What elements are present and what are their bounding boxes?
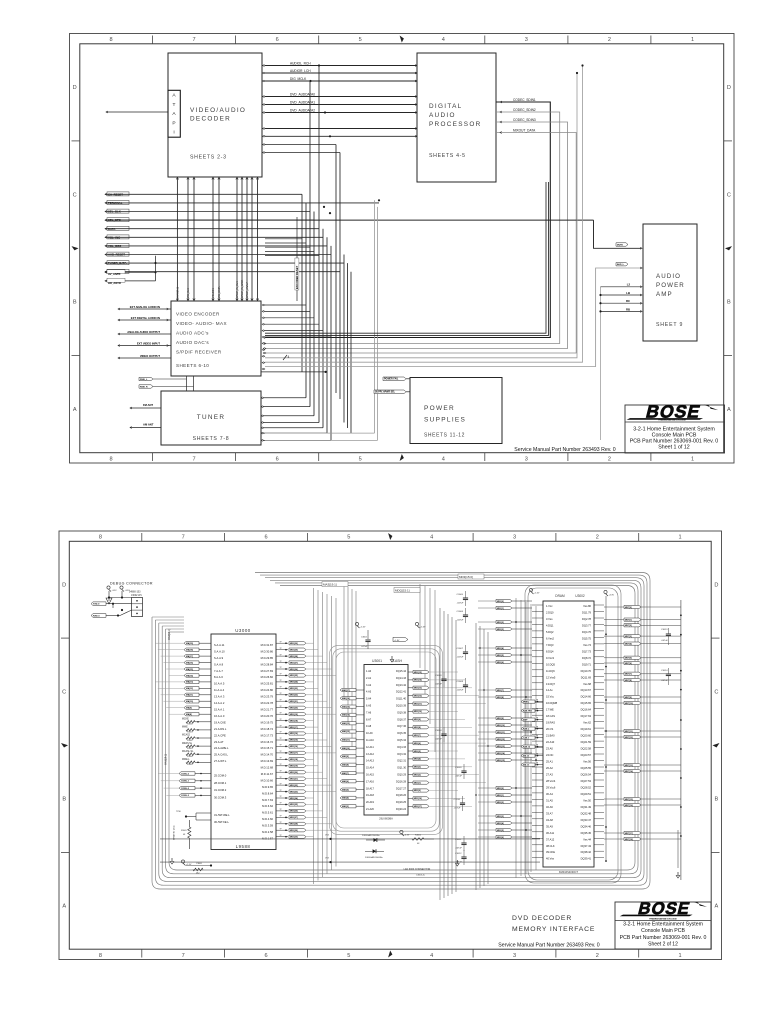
svg-text:MD3[11]: MD3[11]	[414, 703, 422, 705]
svg-text:C3003: C3003	[435, 675, 442, 677]
title block sheet 2 with BOSE logo	[615, 899, 711, 949]
svg-text:TUNER: TUNER	[197, 414, 226, 421]
U3001 pin text columns	[366, 670, 407, 811]
svg-text:DQ27.53: DQ27.53	[581, 779, 592, 783]
svg-text:MD3[21]: MD3[21]	[290, 778, 298, 780]
svg-text:MA3[19:1]: MA3[19:1]	[323, 583, 337, 587]
svg-text:2: 2	[596, 535, 599, 541]
U3002 right pin stubs and rail	[594, 600, 682, 880]
svg-text:6: 6	[276, 457, 279, 463]
svg-text:28.Vcc4: 28.Vcc4	[546, 779, 556, 783]
svg-text:4: 4	[430, 953, 433, 959]
sheet 2 column numbers	[99, 533, 682, 959]
svg-text:M.D.14.70: M.D.14.70	[261, 753, 274, 757]
sheet 1 outer border frame	[70, 34, 735, 464]
svg-text:C: C	[73, 192, 77, 198]
svg-text:11.A.A.4: 11.A.A.4	[214, 688, 225, 692]
svg-text:MDQ[15:1]: MDQ[15:1]	[395, 589, 410, 593]
junction dots on audio data lines	[309, 64, 326, 113]
net label SUPPLY/PWR_SEL	[374, 390, 410, 394]
svg-text:MD3[16]: MD3[16]	[290, 733, 298, 735]
svg-text:22.A.CPE: 22.A.CPE	[214, 733, 226, 737]
wire MIXOUT_DATA DAP to encoder via right loop	[263, 128, 576, 353]
svg-text:EXT DIGITAL AUDIO IN: EXT DIGITAL AUDIO IN	[131, 316, 160, 320]
wire bus verticals center-right	[440, 608, 488, 900]
svg-text:MD3[27]: MD3[27]	[290, 817, 298, 819]
junction dots left bus	[323, 199, 380, 214]
junction dot on lower data line	[329, 135, 331, 137]
svg-text:34.A8: 34.A8	[546, 818, 553, 822]
svg-text:14.Ax: 14.Ax	[546, 688, 553, 692]
svg-text:MD3[4]: MD3[4]	[497, 822, 504, 825]
U3002 control signal labels MWE RAS CAS cluster	[521, 699, 543, 766]
svg-text:MD3[14]: MD3[14]	[414, 679, 422, 682]
svg-text:DQ12.41: DQ12.41	[396, 691, 407, 694]
svg-text:18.CAS: 18.CAS	[546, 714, 555, 718]
svg-text:POWER FAIL: POWER FAIL	[384, 378, 399, 381]
svg-text:MEMORY INTERFACE: MEMORY INTERFACE	[512, 926, 595, 933]
gnd symbol left bottom	[170, 858, 174, 864]
bus width marker 4	[283, 355, 290, 360]
svg-text:DQ3.32: DQ3.32	[397, 753, 406, 756]
svg-text:TP: TP	[536, 744, 539, 746]
svg-text:5.DQ2: 5.DQ2	[546, 630, 554, 634]
wire bundle gray pair verticals	[375, 200, 378, 440]
svg-text:DQ15.65: DQ15.65	[581, 701, 592, 705]
svg-text:DQ14.43: DQ14.43	[396, 677, 407, 680]
block PS1 POWER SUPPLIES (sheets 11-12)	[410, 378, 502, 444]
svg-text:C3014: C3014	[661, 670, 668, 672]
svg-text:1.Vcc: 1.Vcc	[546, 604, 553, 608]
block U2 DIGITAL AUDIO PROCESSOR (sheets 4-5)	[417, 53, 496, 182]
svg-text:16.A.A.0: 16.A.A.0	[214, 714, 225, 718]
bus name label MD3[15:1]	[458, 574, 484, 579]
svg-text:DQ8.37: DQ8.37	[397, 718, 406, 721]
svg-text:2K2: 2K2	[196, 873, 199, 875]
svg-text:7: 7	[182, 953, 185, 959]
wire CODEC_SDIN1 DAP to encoder via right loop	[263, 98, 550, 338]
rounded loop around U3001	[330, 646, 443, 835]
svg-text:7: 7	[193, 457, 196, 463]
svg-text:25.COM.0: 25.COM.0	[214, 774, 227, 778]
svg-text:DQ10.70: DQ10.70	[581, 669, 592, 673]
svg-text:13.A.A.3: 13.A.A.3	[214, 695, 225, 699]
debug connector J3002 title	[110, 582, 153, 586]
svg-text:M.D.29.85: M.D.29.85	[261, 656, 274, 660]
U3000 right pin net labels with test points	[276, 641, 336, 838]
wire VIDEO OUTPUT stub	[118, 354, 171, 359]
svg-text:DIG_MCLK: DIG_MCLK	[290, 77, 307, 81]
svg-text:MA3[9]: MA3[9]	[342, 755, 349, 758]
svg-text:MD3[25]: MD3[25]	[290, 804, 298, 806]
svg-text:8.A7: 8.A7	[366, 718, 372, 721]
wire loop around DRAM block	[525, 585, 621, 883]
svg-text:MDT[14]: MDT[14]	[625, 770, 633, 773]
svg-text:DQ2.78: DQ2.78	[582, 617, 591, 621]
U3002 left pin stubs	[532, 605, 543, 858]
svg-text:6: 6	[264, 535, 267, 541]
svg-text:MDT[9]: MDT[9]	[625, 697, 632, 699]
wire DIG_MCLK decoder to DAP	[262, 77, 417, 82]
svg-text:S/PDIF RECEIVER: S/PDIF RECEIVER	[176, 350, 222, 355]
svg-text:B: B	[62, 797, 66, 803]
svg-text:36.A11: 36.A11	[546, 831, 555, 835]
wire CODEC_SDIN2 DAP to encoder via right loop	[263, 108, 560, 344]
svg-text:MDT[8]: MDT[8]	[625, 680, 632, 682]
svg-text:MD3[2]: MD3[2]	[497, 622, 504, 624]
svg-text:27.A.WT.L: 27.A.WT.L	[214, 759, 227, 763]
U3001 left net labels	[340, 688, 364, 808]
svg-text:MD3[26]: MD3[26]	[290, 669, 298, 671]
svg-text:M.D.28.84: M.D.28.84	[261, 662, 274, 666]
svg-text:CAS.1: CAS.1	[523, 736, 530, 739]
svg-text:C3006: C3006	[457, 611, 464, 613]
svg-text:22.A10: 22.A10	[546, 740, 555, 744]
junction dots on memory data bus	[475, 621, 537, 831]
svg-text:MA3[10]: MA3[10]	[342, 747, 350, 750]
power symbol +3.3V debug left	[107, 586, 117, 592]
svg-text:MD3[16]: MD3[16]	[290, 746, 298, 748]
svg-text:.047uF: .047uF	[661, 640, 668, 642]
capacitor C3014	[661, 668, 671, 685]
svg-text:8.A.A.6: 8.A.A.6	[214, 675, 223, 679]
svg-text:1: 1	[691, 457, 694, 463]
svg-text:AUDIOR_LCH: AUDIOR_LCH	[290, 69, 311, 73]
U3000 left address net labels	[155, 642, 211, 717]
svg-text:C3008: C3008	[457, 681, 464, 683]
svg-text:13.DQ7: 13.DQ7	[546, 682, 555, 686]
capacitor C3003	[435, 672, 447, 687]
wire TUNER_DATA input stub	[105, 261, 344, 266]
svg-text:DQ16.64: DQ16.64	[581, 708, 592, 712]
svg-text:CODEC_SDIN2: CODEC_SDIN2	[513, 108, 536, 112]
svg-text:AUDIO ADC's: AUDIO ADC's	[176, 331, 209, 336]
svg-text:A: A	[73, 407, 77, 413]
svg-text:VIDEO- AUDIO- MAX: VIDEO- AUDIO- MAX	[176, 321, 227, 326]
svg-text:DQ10.39: DQ10.39	[396, 705, 407, 708]
caption MEMORY INTERFACE	[512, 926, 595, 933]
svg-text:MDT[15]: MDT[15]	[625, 799, 633, 801]
svg-text:MA3[17]: MA3[17]	[342, 689, 350, 692]
svg-text:Service Manual Part Number 263: Service Manual Part Number 263493 Rev. 0	[514, 447, 616, 453]
svg-text:R3001: R3001	[187, 732, 193, 734]
svg-text:8: 8	[99, 953, 102, 959]
svg-text:1: 1	[679, 535, 682, 541]
svg-text:3: 3	[513, 953, 516, 959]
svg-text:MD3[6]: MD3[6]	[497, 837, 504, 839]
svg-text:DQ5.75: DQ5.75	[582, 636, 591, 640]
svg-text:25.A.CAS.L: 25.A.CAS.L	[214, 753, 229, 757]
svg-text:PROCESSOR: PROCESSOR	[429, 121, 482, 128]
svg-text:2: 2	[596, 953, 599, 959]
svg-text:TP30: TP30	[176, 811, 182, 813]
svg-text:DQ38.42: DQ38.42	[581, 850, 592, 854]
svg-text:M.D.5.61: M.D.5.61	[262, 811, 273, 815]
svg-text:-0.3V: -0.3V	[404, 835, 409, 837]
svg-text:MD3[30]: MD3[30]	[290, 837, 298, 839]
svg-text:SPDIF_IN_DATA: SPDIF_IN_DATA	[241, 279, 244, 298]
svg-text:Vss.68: Vss.68	[583, 682, 591, 686]
svg-text:Vref: Vref	[325, 857, 329, 860]
svg-text:MD3[28]: MD3[28]	[290, 824, 298, 826]
svg-text:13.A12: 13.A12	[366, 753, 375, 756]
rail Vref bottom with dots	[160, 834, 540, 864]
svg-text:+3.3V: +3.3V	[534, 593, 540, 595]
wire DVD_AUDDATA0 decoder to DAP	[262, 92, 417, 97]
svg-text:5.A4: 5.A4	[366, 698, 372, 701]
staircase horizontal connectors mid	[265, 239, 319, 256]
net label TXD-0	[91, 602, 132, 606]
svg-text:DRAM ID (3:1): DRAM ID (3:1)	[173, 825, 176, 840]
svg-text:MD3[15:0]: MD3[15:0]	[459, 575, 473, 579]
wire FM ANT stub	[130, 403, 161, 409]
svg-text:MD3[15]: MD3[15]	[290, 740, 298, 742]
svg-text:M.D.18.74: M.D.18.74	[261, 727, 274, 731]
svg-text:7.A6: 7.A6	[366, 711, 372, 714]
svg-text:8: 8	[99, 535, 102, 541]
svg-text:R3003: R3003	[187, 748, 193, 750]
svg-text:MD3[27]: MD3[27]	[290, 662, 298, 664]
connector J3002 pin header	[132, 598, 143, 617]
svg-text:1: 1	[691, 37, 694, 43]
svg-text:DQ19.25: DQ19.25	[396, 801, 407, 804]
diode D3000A	[362, 834, 385, 842]
svg-text:SHEET 9: SHEET 9	[656, 322, 683, 328]
svg-text:C: C	[62, 690, 66, 696]
svg-text:21.BA0: 21.BA0	[546, 734, 555, 738]
svg-text:LB: LB	[626, 291, 630, 295]
svg-text:4K: 4K	[183, 834, 186, 836]
svg-text:1: 1	[679, 953, 682, 959]
svg-text:+3.3V: +3.3V	[420, 627, 426, 629]
U3002 pin text columns	[546, 604, 592, 861]
svg-text:TP: TP	[536, 699, 539, 701]
footer text service manual number sheet 2	[498, 942, 600, 948]
svg-text:2: 2	[608, 37, 611, 43]
svg-text:MDT[17]: MDT[17]	[625, 833, 633, 835]
svg-text:MD3[30]: MD3[30]	[290, 643, 298, 645]
svg-text:M.D.6.62: M.D.6.62	[262, 804, 273, 808]
svg-text:SHEETS 7-8: SHEETS 7-8	[193, 436, 230, 442]
svg-text:DQ37.43: DQ37.43	[581, 844, 592, 848]
svg-text:MDT[1]: MDT[1]	[625, 619, 632, 621]
power symbol +3.3V mid	[529, 588, 540, 594]
svg-text:MD3[18]: MD3[18]	[290, 759, 298, 761]
capacitor C3011	[455, 836, 467, 851]
svg-text:MDT[0]: MDT[0]	[625, 607, 632, 609]
svg-text:M.D.15.71: M.D.15.71	[261, 746, 274, 750]
svg-text:MWEL: MWEL	[523, 701, 530, 703]
wire AUDIOR_LCH decoder to DAP	[262, 69, 417, 74]
svg-text:MD3[19]: MD3[19]	[290, 766, 298, 768]
svg-text:MA3[3]: MA3[3]	[342, 805, 349, 808]
svg-text:T: T	[173, 102, 176, 108]
svg-text:DQ11.40: DQ11.40	[396, 698, 406, 701]
svg-text:SUPPLIES: SUPPLIES	[424, 417, 466, 424]
svg-text:6.A5: 6.A5	[366, 705, 372, 708]
svg-text:16.A15: 16.A15	[366, 774, 375, 777]
svg-text:37.A12: 37.A12	[546, 837, 555, 841]
svg-text:3-2-1 Home Entertainment Syste: 3-2-1 Home Entertainment System	[623, 922, 703, 928]
svg-text:CODEC_SDIN3: CODEC_SDIN3	[513, 118, 536, 122]
wire bundle decoder/stub staircase verticals	[302, 66, 351, 441]
svg-text:M.D.26.82: M.D.26.82	[261, 675, 274, 679]
svg-text:VIDEO OUTPUT: VIDEO OUTPUT	[140, 354, 161, 358]
capacitor C3005	[457, 591, 469, 606]
svg-text:MD3[5]: MD3[5]	[497, 655, 504, 657]
svg-text:35.A9: 35.A9	[546, 824, 553, 828]
svg-text:R3001: R3001	[181, 830, 187, 832]
svg-text:SHEETS 2-3: SHEETS 2-3	[190, 155, 227, 161]
svg-text:MUTE: MUTE	[617, 244, 624, 246]
svg-text:.047uF: .047uF	[457, 620, 464, 622]
svg-text:A: A	[172, 111, 176, 117]
svg-text:R3005: R3005	[187, 764, 193, 766]
svg-text:VID_CLK: VID_CLK	[187, 288, 190, 298]
svg-text:MD3[1]: MD3[1]	[497, 795, 504, 797]
svg-text:M.D.25.81: M.D.25.81	[261, 682, 274, 686]
svg-text:AUDIO: AUDIO	[429, 112, 456, 119]
svg-text:M.D.27.83: M.D.27.83	[261, 669, 274, 673]
svg-text:9.A8: 9.A8	[366, 725, 372, 728]
svg-text:19.A18: 19.A18	[366, 794, 375, 797]
svg-text:COM.L0: COM.L0	[181, 773, 190, 775]
svg-text:A: A	[62, 904, 66, 910]
svg-text:DQ7.73: DQ7.73	[582, 649, 591, 653]
svg-text:MCASL.SL: MCASL.SL	[182, 750, 194, 753]
svg-text:23.A0: 23.A0	[546, 747, 553, 751]
svg-text:C3007: C3007	[457, 648, 464, 650]
svg-text:M.D.11.67: M.D.11.67	[261, 772, 274, 776]
wire VOL_INC input stub	[105, 235, 323, 240]
U3000 right pin text column	[261, 643, 274, 841]
power rail vertical right of U3002	[605, 596, 607, 862]
svg-text:COM.L3: COM.L3	[181, 795, 190, 797]
net label RXD-0	[91, 614, 120, 618]
svg-text:D: D	[62, 582, 66, 588]
svg-text:M.D.19.75: M.D.19.75	[261, 720, 274, 724]
svg-text:+1.8V: +1.8V	[394, 640, 400, 642]
svg-text:MD3[2]: MD3[2]	[414, 775, 421, 777]
svg-text:9.Vcc3: 9.Vcc3	[546, 656, 554, 660]
svg-text:MA[17]: MA[17]	[186, 655, 193, 658]
svg-text:7.A.A.7: 7.A.A.7	[214, 669, 223, 673]
caption DVD DECODER	[512, 915, 572, 922]
svg-text:15.A.A.1: 15.A.A.1	[214, 708, 225, 712]
svg-text:MD3[1]: MD3[1]	[414, 782, 421, 784]
svg-text:RC: RC	[626, 299, 630, 303]
wire DATA input stub	[105, 226, 319, 231]
svg-text:MA[11]: MA[11]	[186, 694, 193, 697]
gnd symbol bottom right cluster	[456, 860, 460, 866]
svg-text:17.WE: 17.WE	[546, 708, 554, 712]
svg-text:MA[16]: MA[16]	[186, 661, 193, 664]
svg-text:R3004: R3004	[187, 756, 193, 758]
power +2.5V and C3000 at U3000 bottom	[181, 860, 212, 875]
diode D3000B	[365, 849, 384, 859]
svg-text:21.A.DN.L: 21.A.DN.L	[214, 727, 227, 731]
svg-text:AV_ANTR: AV_ANTR	[108, 272, 121, 276]
wire bus verticals left of DRAM	[516, 598, 536, 878]
svg-text:SPDIF_ANALF: SPDIF_ANALF	[246, 281, 249, 298]
svg-text:MD3[7]: MD3[7]	[414, 735, 421, 737]
svg-text:DQ18.26: DQ18.26	[396, 794, 407, 797]
svg-text:Vss.44: Vss.44	[583, 837, 591, 841]
svg-text:12.Vss5: 12.Vss5	[546, 675, 556, 679]
svg-text:4: 4	[442, 457, 445, 463]
svg-text:+3.3V: +3.3V	[125, 590, 131, 592]
svg-text:M.D.13.69: M.D.13.69	[261, 759, 274, 763]
svg-text:6: 6	[264, 953, 267, 959]
svg-text:MD3[5]: MD3[5]	[497, 830, 504, 832]
svg-text:FRAMINGHAM MA 01701-9168: FRAMINGHAM MA 01701-9168	[649, 917, 676, 920]
svg-text:MD3[8]: MD3[8]	[414, 727, 421, 729]
svg-text:38.CLK: 38.CLK	[546, 844, 555, 848]
svg-text:M.D.12.68: M.D.12.68	[261, 766, 274, 770]
svg-text:30.A4: 30.A4	[546, 792, 553, 796]
svg-text:Vss.62: Vss.62	[583, 721, 591, 725]
svg-text:26.A2: 26.A2	[546, 766, 553, 770]
svg-text:MD3[29]: MD3[29]	[290, 649, 298, 651]
svg-text:C: C	[727, 192, 731, 198]
svg-text:MD3[4]: MD3[4]	[497, 647, 504, 650]
svg-text:TP: TP	[536, 762, 539, 764]
svg-text:20.CS: 20.CS	[546, 727, 553, 731]
svg-text:C3010: C3010	[454, 799, 461, 801]
svg-text:12.A11: 12.A11	[366, 746, 374, 749]
svg-text:M.D.4.60: M.D.4.60	[262, 817, 273, 821]
svg-text:MD3[15]: MD3[15]	[497, 760, 505, 762]
svg-text:4: 4	[288, 355, 290, 359]
svg-text:COM.L1: COM.L1	[181, 781, 190, 783]
svg-text:R3000: R3000	[187, 724, 193, 726]
svg-text:28.COM.1: 28.COM.1	[214, 781, 227, 785]
net labels RSSI between encoder and tuner	[139, 376, 194, 391]
svg-text:AMP: AMP	[656, 291, 673, 298]
svg-text:.047uF: .047uF	[457, 657, 464, 659]
svg-text:P: P	[172, 120, 175, 126]
block U3 VIDEO ENCODER / AUDIO ADC DAC / SPDIF RECEIVER (sheets 6-10)	[171, 301, 261, 376]
svg-text:6.Vss2: 6.Vss2	[546, 636, 554, 640]
svg-text:TP: TP	[536, 753, 539, 755]
svg-text:24.A.AWE.L: 24.A.AWE.L	[214, 746, 229, 750]
sheet 2 row letters	[61, 582, 720, 909]
wire EXT VIDEO INPUT stub	[118, 341, 171, 346]
svg-text:MD3[0]: MD3[0]	[497, 601, 504, 603]
svg-text:Vss.56: Vss.56	[583, 760, 591, 764]
svg-text:C3000: C3000	[196, 863, 203, 865]
svg-text:MA[19]: MA[19]	[186, 642, 193, 645]
svg-text:M.D.24.80: M.D.24.80	[261, 688, 274, 692]
svg-text:DVD DECODER: DVD DECODER	[512, 915, 572, 922]
svg-text:M.D.3.59: M.D.3.59	[262, 824, 273, 828]
svg-text:MA[12]: MA[12]	[186, 687, 193, 690]
svg-text:MDT[4]: MDT[4]	[625, 642, 632, 645]
svg-text:M.D.16.72: M.D.16.72	[261, 740, 274, 744]
svg-text:10.A9: 10.A9	[366, 732, 373, 735]
svg-text:5: 5	[359, 457, 362, 463]
svg-text:M.D.9.65: M.D.9.65	[262, 785, 273, 789]
svg-text:DQ31.49: DQ31.49	[581, 805, 592, 809]
svg-text:ANALOG AUDIO OUTPUT: ANALOG AUDIO OUTPUT	[127, 330, 160, 334]
sheet 2 outer border frame	[59, 531, 722, 960]
svg-text:10.A.A.5: 10.A.A.5	[214, 682, 225, 686]
svg-text:M.D.8.64: M.D.8.64	[262, 791, 273, 795]
svg-text:MA3[7]: MA3[7]	[342, 772, 349, 775]
svg-text:L9588: L9588	[236, 844, 251, 849]
svg-text:M.D.20.76: M.D.20.76	[261, 714, 274, 718]
svg-text:MWE.L: MWE.L	[182, 759, 190, 761]
